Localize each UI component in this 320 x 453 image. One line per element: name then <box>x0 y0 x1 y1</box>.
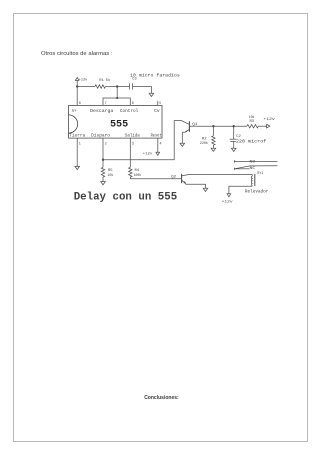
svg-text:1: 1 <box>79 143 81 147</box>
svg-text:555: 555 <box>110 119 128 130</box>
svg-text:Q1: Q1 <box>192 123 198 127</box>
power +12V top-left arrow <box>75 78 79 87</box>
svg-text:4: 4 <box>160 143 162 147</box>
wire pin 2 Disparo down <box>102 138 104 167</box>
wire bridge pins 7-6 <box>103 98 130 105</box>
svg-text:8: 8 <box>79 102 81 106</box>
svg-text:R4: R4 <box>135 169 140 173</box>
ground (R5) <box>101 182 106 185</box>
svg-text:Salida: Salida <box>125 133 140 138</box>
relay contact NO line <box>234 160 277 162</box>
svg-text:10 micro faradios: 10 micro faradios <box>130 73 180 78</box>
svg-text:NC: NC <box>250 167 256 171</box>
svg-text:Cv: Cv <box>154 110 160 114</box>
ground (Q2) <box>203 188 208 191</box>
svg-text:+12v: +12v <box>263 118 275 122</box>
wire C2 from rail <box>233 126 235 139</box>
svg-text:+12v: +12v <box>143 153 153 157</box>
svg-text:C2: C2 <box>236 135 241 139</box>
wire C2 to ground <box>233 141 235 148</box>
wire R5 to ground <box>102 177 104 182</box>
svg-text:V+: V+ <box>72 110 77 114</box>
capacitor C2 <box>230 139 237 141</box>
resistor R4 <box>129 167 132 177</box>
wire coil to +12v <box>229 186 252 194</box>
svg-text:Q2: Q2 <box>171 175 177 179</box>
wire trigger node to Q1 base <box>103 121 189 160</box>
node junction pin2/trigger <box>102 159 104 161</box>
relay RY1 coil <box>250 174 253 186</box>
svg-text:+12v: +12v <box>79 78 88 82</box>
svg-text:2: 2 <box>105 143 107 147</box>
resistor R3 <box>247 125 258 128</box>
svg-text:+12v: +12v <box>222 201 234 205</box>
node dot at +12v junction <box>76 85 78 87</box>
svg-text:R1 5k: R1 5k <box>99 78 111 83</box>
wire Q2 emitter to ground <box>186 184 206 189</box>
ground (pin 1) <box>75 166 80 169</box>
op-amp/IC 555 body <box>69 105 162 138</box>
svg-text:RY1: RY1 <box>257 172 263 176</box>
wire Q1 collector rail <box>197 125 247 127</box>
wire R3 to +12v <box>258 125 266 127</box>
transistor Q2 <box>182 174 190 184</box>
ground (C2) <box>231 148 236 151</box>
svg-text:Reset: Reset <box>151 134 162 138</box>
svg-text:Otros circuitos de alarmas :: Otros circuitos de alarmas : <box>41 51 113 57</box>
svg-text:7: 7 <box>105 102 107 106</box>
ground (Q1) <box>180 143 185 146</box>
svg-text:10k: 10k <box>107 173 114 178</box>
svg-text:220 microf: 220 microf <box>236 139 267 144</box>
wire Q1 emitter to ground <box>181 132 183 143</box>
svg-text:NO: NO <box>250 160 256 164</box>
ground (R2) <box>211 148 216 151</box>
relay contact NC line <box>234 168 249 170</box>
svg-text:Conclusiones:: Conclusiones: <box>144 395 179 401</box>
wire C3 to ground <box>133 87 152 94</box>
power +12v arrow (pin 4) <box>156 152 160 155</box>
node junction R2 <box>212 125 214 127</box>
relay contact common arm <box>235 166 278 169</box>
svg-text:100k: 100k <box>134 173 142 178</box>
svg-text:Disparo: Disparo <box>91 133 110 138</box>
transistor Q1 <box>182 121 197 132</box>
resistor R5 <box>101 167 104 177</box>
svg-text:R5: R5 <box>108 169 113 173</box>
resistor R2 <box>212 136 215 145</box>
power +12v arrow (right) <box>267 124 270 128</box>
svg-text:3: 3 <box>132 143 134 147</box>
svg-text:Delay con un 555: Delay con un 555 <box>74 192 178 204</box>
resistor R1 <box>95 85 106 88</box>
node junction C2 <box>233 125 235 127</box>
wire R1 to C3 <box>106 86 130 88</box>
svg-text:Tierra: Tierra <box>69 133 85 138</box>
wire R2 to ground <box>212 145 214 148</box>
svg-text:R2: R2 <box>202 138 207 142</box>
svg-text:Descarga: Descarga <box>90 110 114 114</box>
wire R2 from rail <box>212 126 214 136</box>
wire pin 3 Salida down <box>129 138 131 167</box>
node junction at R1/C3/bridge <box>116 85 118 87</box>
wire pin 1 Tierra to ground <box>76 138 78 166</box>
wire junction down to pins 7-6 bridge <box>116 87 118 99</box>
power +12v arrow (relay) <box>227 194 231 197</box>
wire pin 4 Reset to +12v <box>157 138 159 152</box>
node junction on bridge <box>116 97 118 99</box>
capacitor C3 <box>130 83 133 89</box>
svg-text:Relevador: Relevador <box>245 190 269 195</box>
wire +12v rail to R1 <box>77 86 95 88</box>
svg-text:R3: R3 <box>250 120 255 124</box>
ground (C3) <box>149 93 154 96</box>
wire V+ pin 8 <box>76 87 78 106</box>
svg-text:6: 6 <box>132 102 134 106</box>
svg-text:Control: Control <box>120 109 139 114</box>
svg-text:5: 5 <box>159 102 161 106</box>
relay core bar <box>254 174 256 186</box>
wire Q2 collector to relay coil <box>190 173 253 175</box>
svg-text:C3: C3 <box>132 78 137 82</box>
pin 5 stub <box>157 101 159 106</box>
wire R4 to Q2 base <box>130 177 181 179</box>
svg-text:220k: 220k <box>200 141 209 146</box>
